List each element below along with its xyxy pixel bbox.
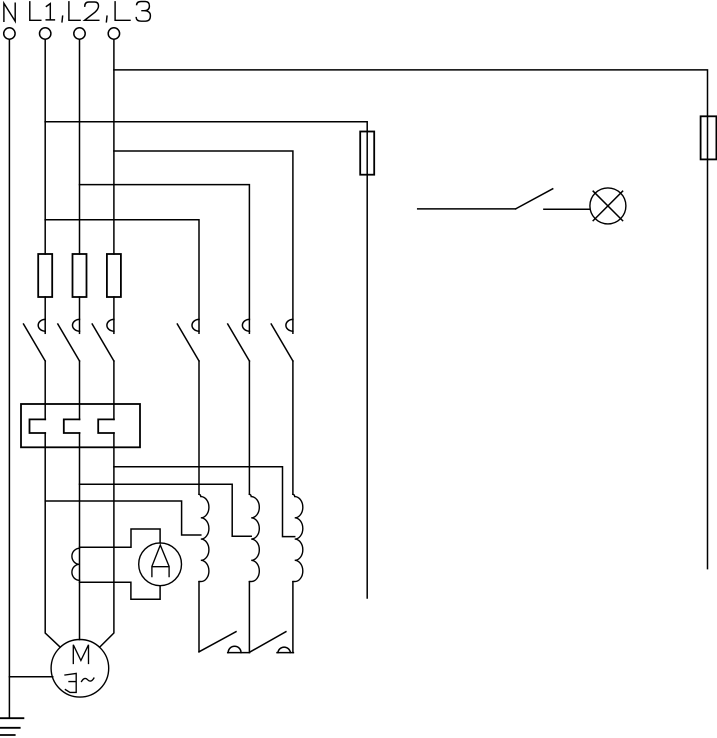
wire K2 pole2 to T2 [248,361,250,494]
wire overload to motor phase 1 [45,433,60,647]
motor M1 circle [51,640,109,698]
contactor K1 pole 2 contact [58,319,80,361]
autotransformer T3 coil [293,494,303,581]
terminal L3 [108,28,119,39]
wire K1 pole2 to overload [79,361,81,419]
ammeter letter A [152,545,169,577]
autotransformer T1 coil [199,494,209,581]
terminal L1 [40,28,51,39]
wire K2 pole3 to T3 [292,361,294,494]
motor letter M [73,645,88,664]
star switch blade 2 [250,632,286,652]
autotransformer T2 coil [249,494,259,581]
wire N to motor [9,676,52,678]
wire F1 to contact [44,297,46,333]
current transformer on L2 [72,548,80,580]
terminal labels N L1,L2,L3 [4,2,151,22]
wire tap L2 to T2 midpoint [80,484,252,536]
contactor K2 pole 3 contact [271,319,293,361]
fuse F2 [73,254,87,297]
wire L2 vertical upper [79,39,81,254]
wire T1 bottom [198,582,200,652]
wire overload to motor phase 3 [100,433,114,647]
wire ammeter top link [80,529,161,547]
wire N vertical [8,39,10,718]
fuse F4 [360,132,374,175]
wire L1 branch to fuse F4 [45,122,367,598]
wire tap L3 to T3 midpoint [114,467,295,537]
wire F2 to contact [79,297,81,333]
star switch blade 1 [199,632,236,652]
wire L3 branch to right fuse F5 [114,70,708,569]
ammeter P1 circle [139,543,182,586]
lamp H1 [590,188,626,224]
terminal L2 [74,28,85,39]
wire F3 to contact [113,297,115,333]
wire L1 vertical upper [44,39,46,254]
wire K1 pole1 to overload [44,361,46,419]
wire L2 branch to contactor K2 pole 2 [80,185,250,334]
star switch fixed contact 2 [277,647,293,653]
overload heater phase 3 [98,419,114,433]
wire L3 vertical upper [113,39,115,254]
terminal N [4,28,15,39]
wire overload to motor phase 2 [79,433,81,640]
wire T3 bottom [292,582,294,653]
fuse F3 [107,254,121,297]
wire K2 pole1 to T1 [198,361,200,494]
wire L1 branch to contactor K2 pole 1 [45,220,199,334]
ground symbol [0,718,23,735]
wire tap L1 to T1 midpoint [45,501,201,535]
lamp switch S1 [418,189,590,210]
star switch fixed contact 1 [228,646,250,652]
overload relay F6 box [21,404,140,447]
wire T2 bottom [248,582,250,653]
contactor K1 pole 1 contact [24,319,46,361]
wire ammeter bottom link [80,582,161,599]
fuse F5 [701,116,717,159]
overload heater phase 2 [64,419,80,433]
wire K1 pole3 to overload [113,361,115,419]
contactor K2 pole 1 contact [177,319,199,361]
contactor K2 pole 2 contact [228,319,250,361]
fuse F1 [38,254,52,297]
wire L3 branch to contactor K2 pole 3 [114,151,293,333]
motor label 3~ [65,673,94,692]
contactor K1 pole 3 contact [92,319,114,361]
overload heater phase 1 [30,419,46,433]
